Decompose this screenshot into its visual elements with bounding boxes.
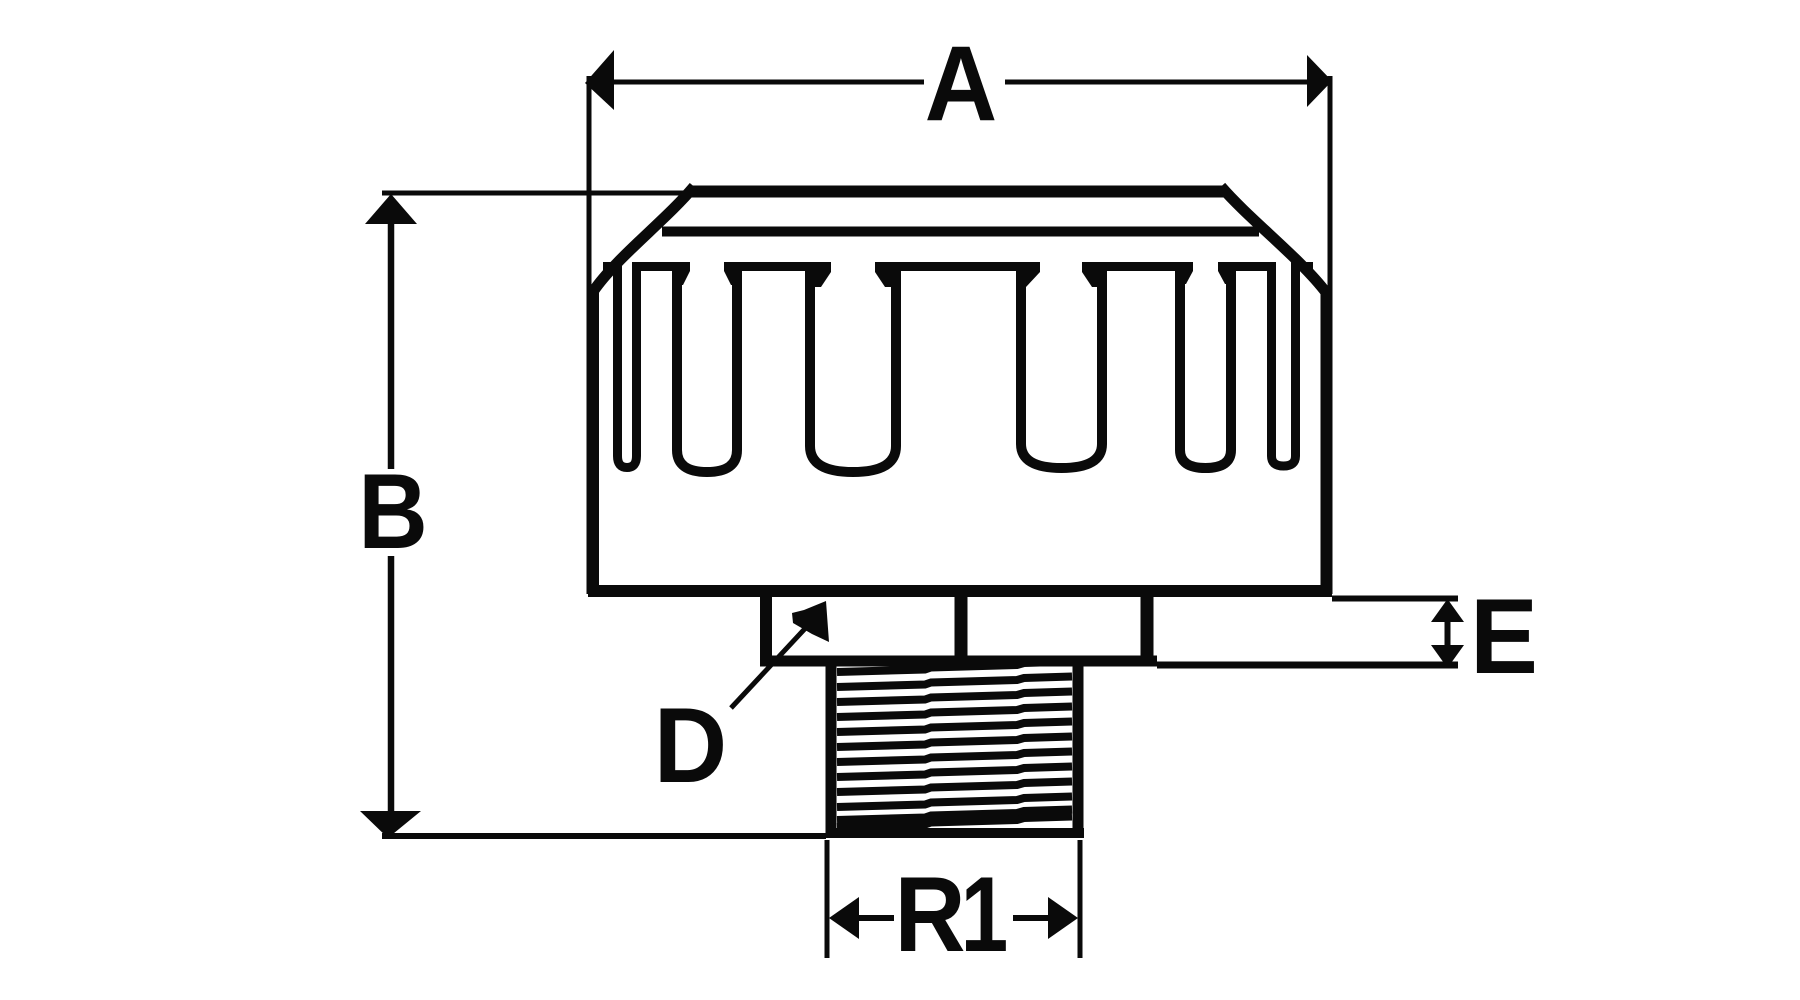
- hex nut bottom edge: [760, 656, 1157, 667]
- cap top face inner edge: [662, 227, 1259, 237]
- dimension A extension line right: [1328, 76, 1333, 594]
- cap left edge: [588, 287, 599, 596]
- hex nut divider 2: [1141, 597, 1154, 659]
- svg-text:B: B: [358, 451, 428, 571]
- threaded stem right edge: [1073, 661, 1084, 837]
- threaded stem bottom edge: [826, 828, 1084, 838]
- dimension A line left segment: [610, 80, 924, 85]
- svg-text:1: 1: [961, 854, 1009, 974]
- knurl slot 4: [1016, 262, 1040, 287]
- dimension A arrowhead right: [1307, 55, 1332, 107]
- cap right edge: [1321, 290, 1332, 596]
- svg-text:E: E: [1470, 578, 1538, 697]
- knurl slot 3: [805, 262, 831, 287]
- knurl slot 6 (narrow right): [1272, 262, 1296, 466]
- leader arrowhead D: [792, 601, 829, 642]
- dimension E arrow shaft: [1445, 612, 1451, 655]
- dimension R1 arrowhead left: [829, 897, 859, 939]
- dimension A arrowhead left: [585, 50, 614, 110]
- hex nut divider 1: [955, 597, 968, 659]
- hex nut left edge: [760, 588, 772, 661]
- dimension B line lower segment: [388, 556, 395, 815]
- threaded stem left edge: [826, 661, 837, 837]
- knurl slot 2: [672, 262, 690, 285]
- dimension B arrowhead top: [365, 194, 417, 224]
- knurl slot 1 (narrow left): [618, 262, 637, 468]
- dimension R1 line left segment: [855, 915, 894, 921]
- cap bottom edge: [588, 585, 1332, 597]
- dimension B extension line bottom: [382, 833, 826, 839]
- cap left shoulder chamfer: [594, 187, 695, 292]
- svg-text:D: D: [654, 687, 727, 806]
- dimension E arrowhead down: [1431, 645, 1464, 668]
- dimension E extension line bottom: [1157, 662, 1458, 669]
- dimension B line upper segment: [388, 220, 395, 469]
- dimension R1 line right segment: [1013, 915, 1051, 921]
- dimension A line right segment: [1005, 80, 1311, 85]
- dimension E arrowhead up: [1431, 599, 1464, 622]
- cap top face outer edge: [689, 186, 1225, 198]
- dimension A extension line left: [587, 76, 592, 594]
- dimension R1 extension line left: [825, 840, 830, 958]
- stem thread hatch lines: [837, 662, 1072, 828]
- knurl band top edge segments: [603, 262, 614, 271]
- dimension B extension line top: [382, 191, 688, 196]
- leader line for D: [731, 620, 813, 708]
- cap right shoulder chamfer: [1221, 187, 1327, 294]
- knurl slot 5: [1175, 262, 1193, 284]
- svg-text:A: A: [925, 25, 998, 145]
- dimension R1 extension line right: [1078, 840, 1083, 958]
- dimension B arrowhead bottom: [360, 811, 421, 838]
- svg-text:R: R: [895, 854, 966, 974]
- dimension R1 arrowhead right: [1048, 897, 1078, 939]
- dimension E extension line top: [1332, 596, 1458, 602]
